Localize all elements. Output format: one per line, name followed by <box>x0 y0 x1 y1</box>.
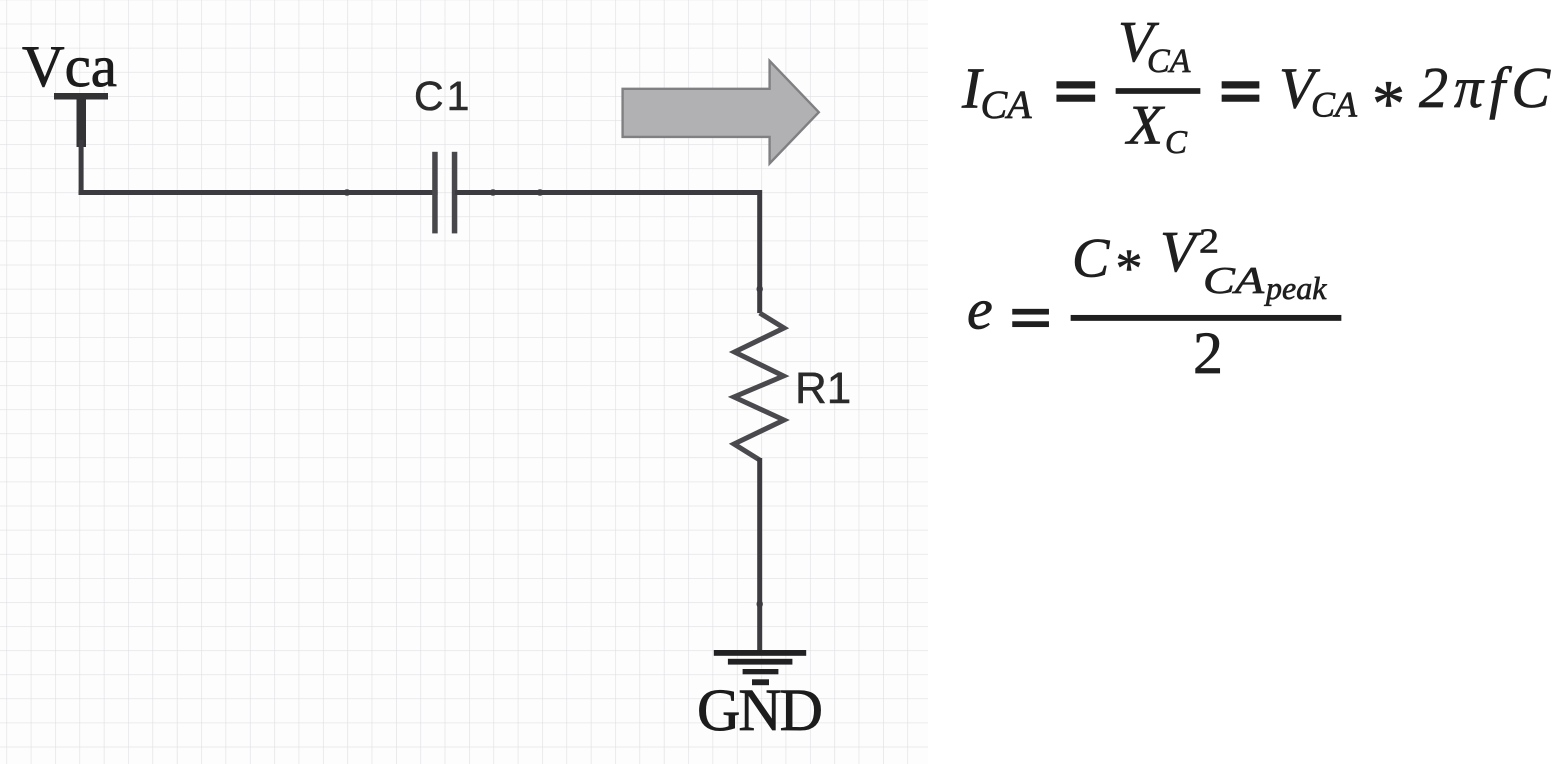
svg-text:V: V <box>1160 219 1202 284</box>
svg-text:*: * <box>1372 68 1405 141</box>
junction <box>757 600 763 608</box>
wire from port Vca down to corner <box>79 140 84 195</box>
svg-text:e: e <box>967 277 993 342</box>
svg-text:CA: CA <box>1311 85 1358 125</box>
formula 1: I_CA = V_CA / X_C = V_CA * 2pi f C <box>961 9 1551 161</box>
svg-text:C1: C1 <box>414 73 472 119</box>
junction <box>343 189 351 195</box>
ground symbol <box>714 650 806 685</box>
junction <box>489 189 497 195</box>
svg-text:CA: CA <box>981 82 1033 127</box>
svg-text:Vca: Vca <box>22 33 117 99</box>
svg-text:CA: CA <box>1147 43 1191 80</box>
junction <box>536 189 544 195</box>
svg-text:2πfC: 2πfC <box>1419 55 1551 120</box>
svg-text:CA: CA <box>1203 260 1265 302</box>
current direction arrow <box>623 61 819 164</box>
svg-text:C: C <box>1072 228 1110 290</box>
svg-text:2: 2 <box>1193 320 1223 386</box>
svg-text:2: 2 <box>1199 222 1219 261</box>
wire horizontal right segment (C1 right plate to corner) <box>455 190 762 195</box>
svg-text:C: C <box>1165 125 1188 161</box>
wire vertical (R1 down to ground) <box>757 458 762 654</box>
svg-text:R1: R1 <box>795 364 851 413</box>
wire horizontal left segment (corner to C1 left plate) <box>79 190 438 195</box>
resistor R1 <box>734 313 784 460</box>
port Vca <box>54 93 108 147</box>
junction <box>757 285 763 293</box>
svg-text:X: X <box>1125 95 1166 157</box>
capacitor C1 right plate <box>452 152 458 234</box>
capacitor C1 left plate <box>432 152 438 234</box>
schematic grid background <box>0 0 928 764</box>
svg-text:*: * <box>1116 238 1143 298</box>
svg-text:GND: GND <box>697 677 821 743</box>
svg-text:peak: peak <box>1264 270 1327 306</box>
wire vertical (corner down to R1) <box>757 190 762 313</box>
formula 2: e = C * V^2_CApeak / 2 <box>967 219 1341 386</box>
